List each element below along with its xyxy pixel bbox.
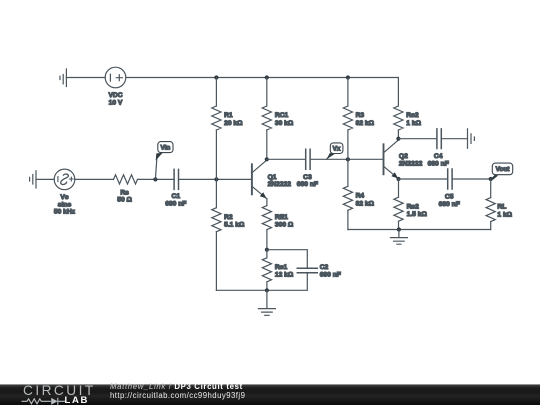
C5 value label 680 nF [439, 193, 460, 208]
svg-text:R4: R4 [356, 193, 365, 200]
wire Q2 collector to C4 [398, 138, 437, 140]
capacitor C1 [174, 169, 178, 189]
Q2 value label 2N2222 [399, 153, 423, 167]
resistor Re1 [262, 258, 271, 282]
junction node Vin [153, 177, 157, 181]
ground G2 (input, at Vs) [30, 171, 36, 188]
capacitor C3 [306, 149, 310, 169]
wire C4 to ground [441, 138, 467, 140]
ground G5 (bottom-right) [390, 230, 407, 245]
wire Q1 collector to C3 [267, 158, 306, 160]
junction Vx wire / R3R4 [346, 157, 350, 161]
junction Q2 collector node [396, 137, 400, 141]
svg-text:R1: R1 [224, 112, 233, 119]
C2 value label 680 nF [320, 264, 341, 279]
svg-text:C2: C2 [320, 264, 329, 271]
svg-text:680 nF: 680 nF [320, 272, 341, 279]
svg-text:Vout: Vout [496, 166, 511, 173]
resistor RE1 [262, 206, 271, 230]
resistor Rc2 [394, 106, 403, 130]
wire ground to Vs [36, 178, 54, 180]
junction bottom-right ground [397, 227, 401, 231]
wire Vs to Rs [75, 178, 114, 180]
svg-text:C4: C4 [434, 153, 443, 160]
junction node Vout [489, 177, 493, 181]
svg-text:50 Ω: 50 Ω [117, 197, 132, 204]
junction RE1 bottom / C2 branch [265, 248, 269, 252]
V1 value label VDC 10 V [108, 92, 122, 107]
CircuitLab logo text CIRCUIT [23, 384, 96, 397]
Vs value label sine 50 kHz [54, 194, 76, 216]
source Vs sine [54, 169, 75, 190]
voltage source V1 VDC [105, 67, 126, 88]
junction base wire / R1R2 [214, 177, 218, 181]
svg-text:2N2222: 2N2222 [268, 181, 292, 188]
wire C2 branch top [267, 250, 307, 269]
C4 value label 680 nF [428, 153, 449, 167]
svg-text:82 kΩ: 82 kΩ [356, 120, 375, 127]
node flag Vout [491, 163, 513, 180]
footer url line [110, 392, 245, 401]
svg-text:RL: RL [497, 204, 506, 211]
transistor Q2 2N2222 [384, 140, 399, 179]
R1 value label 20 kOhm [224, 112, 243, 127]
svg-text:300 Ω: 300 Ω [275, 222, 294, 229]
svg-text:680 nF: 680 nF [439, 201, 460, 208]
wire C1 to Q1 base [179, 178, 252, 180]
RC1 value label 30 kOhm [275, 112, 294, 127]
svg-text:R2: R2 [224, 214, 233, 221]
resistor RL [486, 198, 495, 222]
capacitor C5 [448, 169, 452, 189]
svg-text:1 kΩ: 1 kΩ [497, 211, 512, 218]
wire C5 to Vout [452, 178, 491, 180]
svg-text:Vs: Vs [60, 194, 68, 201]
R2 value label 5.1 kOhm [224, 214, 245, 229]
svg-text:Rs: Rs [120, 189, 129, 196]
wire Re2 leads [398, 179, 400, 230]
wire RL leads [490, 179, 492, 230]
wire ground to V1 [66, 77, 105, 79]
wire C3 to Q2 base [310, 158, 383, 160]
svg-text:680 nF: 680 nF [297, 181, 318, 188]
RE1 value label 300 Ohm [275, 214, 294, 229]
ground G3 (bottom-left) [258, 290, 275, 315]
capacitor C4 [437, 129, 441, 149]
svg-text:680 nF: 680 nF [428, 160, 449, 167]
node flag Vin [155, 142, 173, 180]
footer bar [0, 384, 540, 405]
svg-text:2N2222: 2N2222 [399, 160, 423, 167]
svg-text:Q2: Q2 [399, 153, 408, 160]
footer title line [110, 383, 243, 392]
R4 value label 82 kOhm [356, 193, 375, 208]
resistor Re2 [394, 197, 403, 221]
junction top R1 [214, 75, 218, 79]
wire Rs to C1 [138, 178, 175, 180]
C1 value label 680 nF [165, 193, 186, 208]
ground G4 (after C4) [468, 129, 475, 148]
svg-text:RC1: RC1 [275, 112, 289, 119]
svg-text:Q1: Q1 [268, 174, 277, 181]
svg-text:30 kΩ: 30 kΩ [275, 120, 294, 127]
svg-text:C5: C5 [445, 193, 454, 200]
ground G1 (top-left, at VDC) [60, 69, 66, 87]
svg-text:20 kΩ: 20 kΩ [224, 120, 243, 127]
resistor Rs [114, 175, 138, 184]
svg-text:1 kΩ: 1 kΩ [406, 120, 421, 127]
junction top R3 [346, 75, 350, 79]
svg-text:Re2: Re2 [407, 203, 420, 210]
wire bottom-right rail [348, 229, 491, 231]
wire RC1 leads [266, 78, 268, 160]
resistor R3 [343, 106, 352, 130]
Re1 value label 12 kOhm [275, 264, 294, 279]
svg-text:Rc2: Rc2 [406, 112, 419, 119]
Rs value label 50 Ohm [117, 189, 132, 203]
wire C2 branch bottom [267, 273, 307, 291]
svg-text:12 kΩ: 12 kΩ [275, 272, 294, 279]
svg-text:Vx: Vx [333, 146, 341, 153]
capacitor C2 [297, 268, 317, 272]
svg-text:Vin: Vin [160, 145, 170, 152]
Re2 value label 1.5 kOhm [407, 203, 428, 218]
Q1 value label 2N2222 [268, 174, 292, 188]
wire R3 leads [347, 78, 349, 230]
svg-text:RE1: RE1 [275, 214, 288, 221]
RL value label 1 kOhm [497, 204, 512, 219]
svg-text:Re1: Re1 [275, 264, 288, 271]
svg-text:680 nF: 680 nF [165, 200, 186, 207]
Rc2 value label 1 kOhm [406, 112, 421, 127]
wire RE1 to Re1 [266, 250, 268, 291]
wire R1 leads [215, 78, 217, 291]
C3 value label 680 nF [297, 174, 318, 188]
svg-text:10 V: 10 V [109, 100, 123, 107]
logo text LAB [65, 396, 89, 405]
junction bottom-left ground [265, 288, 269, 292]
svg-text:82 kΩ: 82 kΩ [356, 200, 375, 207]
wire Q2 emitter to C5 [399, 178, 448, 180]
resistor RC1 [262, 106, 271, 130]
svg-text:50 kHz: 50 kHz [54, 209, 76, 216]
node flag Vx [327, 143, 343, 159]
svg-text:1.5 kΩ: 1.5 kΩ [407, 211, 428, 218]
junction Q2 emitter node [396, 177, 400, 181]
wire Q1 emitter to RE1 [266, 199, 268, 250]
R3 value label 82 kOhm [356, 112, 375, 127]
resistor R2 [212, 208, 221, 232]
wire top rail [126, 77, 399, 79]
svg-text:5.1 kΩ: 5.1 kΩ [224, 222, 245, 229]
wire bottom-left rail [216, 289, 267, 291]
junction top RC1 [265, 75, 269, 79]
svg-text:sine: sine [58, 201, 72, 208]
transistor Q1 2N2222 [252, 160, 267, 199]
logo resistor-diode symbol [21, 396, 71, 406]
resistor R4 [343, 186, 352, 210]
wire Rc2 leads [397, 78, 399, 139]
junction Q1 collector node [265, 157, 269, 161]
svg-text:C3: C3 [303, 174, 312, 181]
svg-text:C1: C1 [172, 193, 181, 200]
svg-text:VDC: VDC [108, 92, 122, 99]
svg-text:R3: R3 [356, 112, 365, 119]
resistor R1 [212, 106, 221, 130]
